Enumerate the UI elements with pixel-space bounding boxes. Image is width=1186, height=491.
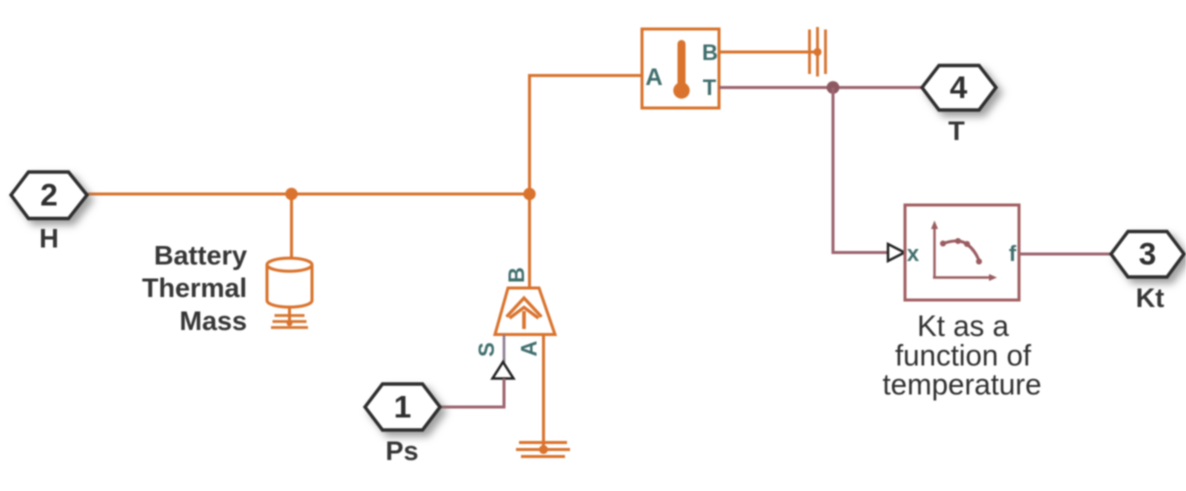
svg-text:H: H bbox=[39, 224, 59, 254]
svg-text:S: S bbox=[474, 342, 499, 357]
svg-text:1: 1 bbox=[394, 389, 412, 425]
component: temperature sensor block U1 bbox=[642, 29, 719, 108]
node: connection dot at reference bbox=[814, 48, 822, 56]
node: junction on H net at sensor/source column bbox=[523, 188, 535, 200]
svg-text:T: T bbox=[703, 75, 717, 100]
wire: drop from junction to thermal mass bbox=[290, 194, 293, 260]
node: junction on T signal bbox=[827, 81, 840, 94]
pin: PS input triangle at S bbox=[493, 362, 514, 379]
svg-text:B: B bbox=[504, 267, 529, 283]
svg-text:2: 2 bbox=[40, 177, 58, 213]
icon: lookup curve with points bbox=[940, 238, 982, 265]
svg-text:x: x bbox=[907, 241, 920, 266]
svg-text:4: 4 bbox=[950, 69, 968, 105]
icon: lookup curve axes bbox=[931, 221, 997, 282]
wire: source A down to bottom thermal reference bbox=[542, 335, 545, 451]
svg-text:Ps: Ps bbox=[385, 436, 418, 466]
wire: stub from source S port to signal triangle bbox=[503, 335, 506, 363]
port 3 hexagon bbox=[1111, 232, 1184, 278]
ground: thermal reference under thermal mass bbox=[271, 316, 308, 328]
svg-text:Kt: Kt bbox=[1136, 283, 1165, 313]
svg-text:Battery: Battery bbox=[154, 241, 247, 271]
node: junction on H net above Battery Thermal Mass bbox=[285, 188, 297, 200]
svg-text:B: B bbox=[702, 40, 718, 65]
wire: lookup output f to port 3 bbox=[1019, 253, 1111, 256]
port 4 hexagon bbox=[922, 66, 996, 111]
icon: double chevron up arrow inside source bbox=[507, 298, 542, 329]
svg-text:Mass: Mass bbox=[179, 306, 247, 336]
svg-text:Kt as a: Kt as a bbox=[917, 310, 1009, 343]
label Battery Thermal Mass bbox=[142, 241, 247, 337]
wire: vertical column from sensor A down to heat source B bbox=[530, 76, 643, 289]
svg-text:temperature: temperature bbox=[882, 369, 1041, 402]
svg-text:A: A bbox=[517, 340, 542, 356]
component: controlled heat flow source (trapezoid) bbox=[495, 288, 555, 335]
svg-text:f: f bbox=[1009, 241, 1017, 266]
wire: stem from thermal mass to its reference bbox=[288, 307, 291, 326]
svg-text:Thermal: Thermal bbox=[142, 273, 247, 303]
pin: PS input arrow into lookup table bbox=[888, 244, 905, 261]
icon: thermometer inside sensor bbox=[673, 44, 689, 99]
ground: thermal reference (rotated) right of sensor bbox=[810, 27, 826, 77]
ground: thermal reference at bottom bbox=[516, 443, 570, 457]
wire: sensor T to port 4 (physical signal) bbox=[719, 86, 922, 89]
wire: sensor B to thermal reference (orange) bbox=[719, 51, 818, 54]
svg-text:T: T bbox=[948, 116, 965, 146]
label Kt as a function of temperature bbox=[882, 310, 1041, 402]
port 2 hexagon bbox=[11, 172, 87, 219]
wire: port 1 to S triangle (physical signal) bbox=[440, 379, 504, 408]
port 1 hexagon bbox=[365, 384, 440, 430]
wire: main horizontal H net (orange) bbox=[87, 193, 530, 196]
svg-text:3: 3 bbox=[1139, 236, 1157, 272]
component: Battery Thermal Mass (cylinder) bbox=[267, 258, 312, 307]
svg-text:A: A bbox=[645, 64, 662, 91]
component: Kt lookup table block bbox=[905, 205, 1019, 300]
wire: T signal down and right to lookup table input bbox=[833, 88, 888, 253]
